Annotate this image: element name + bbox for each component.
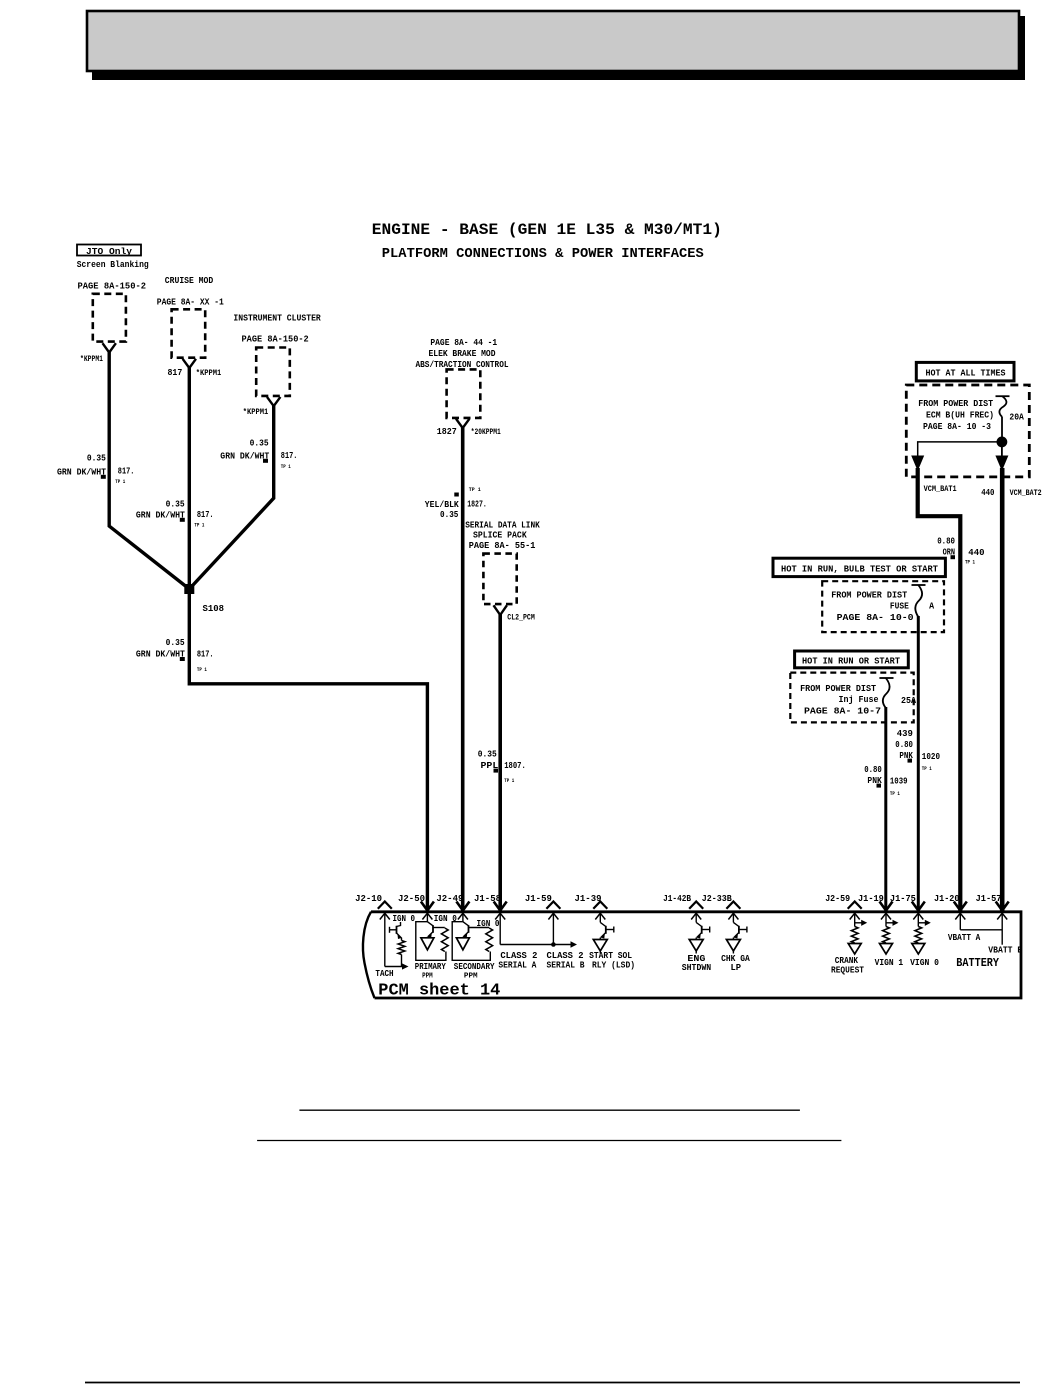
svg-text:PAGE 8A- XX -1: PAGE 8A- XX -1 [157, 297, 224, 308]
wire splice pack to PCM J1-58 [498, 614, 502, 912]
power dist FUSE A box [822, 581, 944, 632]
net PRIMARY label [415, 961, 446, 981]
svg-text:TP 1: TP 1 [965, 559, 976, 566]
svg-text:TP 1: TP 1 [890, 790, 901, 797]
svg-text:440: 440 [981, 487, 995, 498]
svg-text:VBATT A: VBATT A [948, 932, 981, 943]
power dist Inj Fuse text [800, 683, 916, 717]
resistor crank request input [848, 920, 867, 954]
svg-text:CRUISE MOD: CRUISE MOD [165, 275, 214, 286]
svg-text:0.80: 0.80 [895, 739, 913, 750]
wire junction down [1001, 446, 1003, 456]
connector J1-75 [890, 893, 925, 927]
svg-text:Screen Blanking: Screen Blanking [77, 260, 149, 270]
svg-text:GRN DK/WHT: GRN DK/WHT [136, 510, 185, 521]
svg-text:PPM: PPM [422, 973, 433, 981]
svg-text:VCM_BAT2: VCM_BAT2 [1010, 489, 1042, 498]
connector J2-49 [436, 893, 469, 922]
svg-text:VIGN 1: VIGN 1 [875, 957, 904, 968]
svg-text:0.35: 0.35 [440, 509, 459, 520]
svg-text:A: A [929, 601, 934, 612]
svg-text:Inj Fuse: Inj Fuse [839, 694, 879, 705]
svg-text:SERIAL A: SERIAL A [498, 960, 536, 971]
svg-text:0.35: 0.35 [166, 498, 185, 509]
wire cruise mod to S108 to PCM J2-50 [189, 367, 427, 912]
net CRANK REQUEST [831, 955, 864, 976]
PCM module box [371, 912, 1021, 998]
net CLASS 2 SERIAL A [498, 950, 537, 971]
svg-text:IGN 0: IGN 0 [393, 913, 416, 924]
transistor check gauges driver [726, 922, 747, 953]
svg-text:TP 1: TP 1 [504, 777, 515, 784]
arrowhead VCM_BAT1 [911, 456, 924, 472]
secondary driver block [452, 922, 490, 961]
instrument cluster module box [256, 348, 290, 396]
fuse Inj symbol [879, 678, 893, 708]
svg-text:GRN DK/WHT: GRN DK/WHT [57, 467, 106, 478]
connector J2-33B [702, 893, 741, 922]
svg-text:PPM: PPM [464, 973, 478, 981]
connector Y ABS [456, 419, 469, 428]
connector J1-57 [976, 893, 1009, 945]
svg-text:817: 817 [168, 367, 183, 378]
svg-text:PAGE 8A- 10 -3: PAGE 8A- 10 -3 [923, 421, 991, 432]
connector Y screen blanking [103, 343, 116, 352]
svg-text:J1-58: J1-58 [474, 893, 501, 904]
svg-text:1807.: 1807. [504, 760, 526, 771]
svg-text:SHTDWN: SHTDWN [682, 962, 712, 973]
wire label 0.35 PPL 1807 [478, 749, 526, 784]
svg-text:VBATT B: VBATT B [988, 945, 1022, 956]
svg-text:GRN DK/WHT: GRN DK/WHT [136, 649, 185, 660]
svg-text:JTO Only: JTO Only [86, 247, 133, 257]
junction dot VCM_BAT [997, 437, 1008, 448]
svg-text:HOT IN RUN OR START: HOT IN RUN OR START [802, 656, 900, 667]
power dist ECM text [918, 398, 994, 432]
svg-text:0.80: 0.80 [864, 764, 882, 775]
svg-text:TP 1: TP 1 [281, 463, 292, 470]
svg-text:FROM POWER DIST: FROM POWER DIST [918, 398, 993, 409]
svg-text:FUSE: FUSE [890, 601, 909, 612]
HOT IN RUN OR START label box [795, 651, 909, 668]
svg-text:*20KPPM1: *20KPPM1 [471, 427, 501, 437]
svg-text:ELEK BRAKE MOD: ELEK BRAKE MOD [429, 348, 496, 359]
svg-text:TP 1: TP 1 [115, 478, 126, 485]
HOT IN RUN BULB TEST OR START label box [773, 558, 945, 576]
connector J2-10 [355, 893, 392, 967]
wire label 0.35 GRN DK/WHT 817 (below S108) [136, 637, 214, 673]
wire instrument cluster to S108 [189, 405, 273, 589]
svg-text:VIGN 0: VIGN 0 [910, 957, 939, 968]
svg-text:0.35: 0.35 [87, 453, 106, 464]
junction class 2 [551, 942, 556, 947]
svg-text:*KPPM1: *KPPM1 [80, 354, 103, 364]
page footer rule [85, 1382, 1020, 1384]
svg-text:TP 1: TP 1 [197, 666, 208, 673]
transistor tach driver [390, 922, 402, 941]
svg-text:1827: 1827 [437, 426, 457, 437]
wire tach output [385, 955, 402, 967]
fuse 20A [996, 396, 1025, 422]
net START SOL RLY [589, 950, 635, 971]
wire label 0.80 PNK 1039 [864, 764, 908, 797]
svg-text:HOT IN RUN, BULB TEST OR START: HOT IN RUN, BULB TEST OR START [781, 564, 938, 575]
cruise mod module box [172, 309, 206, 357]
svg-text:SECONDARY: SECONDARY [454, 961, 495, 972]
wire FUSE A to PCM J1-75 [917, 616, 920, 912]
svg-text:J1-39: J1-39 [575, 893, 602, 904]
svg-text:GRN DK/WHT: GRN DK/WHT [220, 451, 269, 462]
net IGN 0 (tach) [393, 913, 416, 924]
svg-text:VCM_BAT1: VCM_BAT1 [924, 485, 957, 494]
wire label 0.35 GRN DK/WHT 817 (middle) [136, 498, 214, 528]
svg-text:TP 1: TP 1 [469, 486, 482, 493]
svg-text:PAGE 8A- 55-1: PAGE 8A- 55-1 [469, 540, 536, 551]
svg-text:817.: 817. [118, 466, 135, 477]
connector J1-42B [663, 893, 703, 922]
svg-text:0.35: 0.35 [250, 437, 269, 448]
wire junction to left arrow [918, 442, 1002, 456]
svg-text:PRIMARY: PRIMARY [415, 961, 446, 972]
svg-text:S108: S108 [203, 603, 225, 614]
power dist ECM box [906, 385, 1029, 477]
screen blanking module box [93, 294, 126, 342]
connector Y splice pack [494, 605, 507, 615]
svg-text:0.80: 0.80 [937, 536, 955, 547]
net ENG SHTDWN [682, 953, 712, 973]
svg-text:PAGE 8A-150-2: PAGE 8A-150-2 [242, 334, 310, 345]
wire screen blanking to S108 [109, 352, 189, 590]
connector J2-59 [825, 893, 862, 927]
svg-text:J2-49: J2-49 [436, 893, 463, 904]
svg-text:PAGE 8A- 44 -1: PAGE 8A- 44 -1 [430, 337, 497, 348]
wire class 2 serial [500, 944, 570, 946]
connector J1-39 [575, 893, 608, 922]
resistor vign0 input [912, 920, 931, 954]
net CHK GA LP [721, 953, 750, 973]
wire label 0.35 GRN DK/WHT 817 (left) [57, 453, 134, 486]
connector Y cruise mod [183, 359, 196, 368]
resistor secondary [486, 928, 493, 952]
wire ABS to PCM J2-49 [461, 427, 465, 912]
svg-text:PLATFORM CONNECTIONS & POWER I: PLATFORM CONNECTIONS & POWER INTERFACES [382, 247, 704, 262]
net SECONDARY label [454, 961, 495, 981]
svg-text:J2-59: J2-59 [825, 893, 850, 904]
svg-text:20A: 20A [1009, 412, 1024, 423]
transistor eng shutdown driver [689, 922, 710, 953]
svg-text:439: 439 [897, 728, 914, 739]
svg-text:HOT AT ALL TIMES: HOT AT ALL TIMES [926, 368, 1006, 379]
underline rule 2 [257, 1140, 841, 1142]
wire label 0.35 GRN DK/WHT 817 (right) [220, 437, 297, 470]
svg-text:BATTERY: BATTERY [956, 956, 999, 970]
svg-text:RLY (LSD): RLY (LSD) [592, 960, 635, 971]
svg-text:817.: 817. [197, 509, 214, 520]
svg-text:REQUEST: REQUEST [831, 965, 864, 976]
svg-text:1039: 1039 [890, 776, 908, 787]
PCM torn left edge [363, 912, 375, 998]
svg-text:0.35: 0.35 [478, 749, 497, 760]
connector J1-20 [934, 893, 967, 930]
svg-text:TACH: TACH [375, 968, 393, 979]
svg-text:J1-59: J1-59 [525, 893, 552, 904]
power dist Inj Fuse box [790, 673, 913, 723]
svg-text:25A: 25A [901, 695, 916, 706]
wire VCM_BAT1 to PCM J1-20 [918, 468, 961, 912]
svg-text:PAGE 8A-150-2: PAGE 8A-150-2 [78, 281, 147, 292]
svg-text:CL2_PCM: CL2_PCM [507, 614, 535, 623]
wire Inj Fuse to PCM J1-19 [884, 707, 887, 912]
svg-text:FROM POWER DIST: FROM POWER DIST [831, 590, 907, 601]
svg-text:J2-10: J2-10 [355, 893, 382, 904]
svg-text:J2-33B: J2-33B [702, 893, 732, 904]
splice S108 [184, 584, 194, 594]
svg-text:ENGINE - BASE (GEN 1E L35 & M3: ENGINE - BASE (GEN 1E L35 & M30/MT1) [372, 221, 722, 239]
wire label YEL/BLK 0.35 1827 [425, 486, 487, 520]
svg-text:SERIAL B: SERIAL B [547, 960, 585, 971]
underline rule 1 [299, 1109, 800, 1111]
JTO Only label box [77, 245, 141, 258]
svg-text:*KPPM1: *KPPM1 [196, 368, 222, 378]
svg-text:1020: 1020 [922, 751, 940, 762]
svg-text:1827.: 1827. [467, 499, 487, 510]
svg-text:*KPPM1: *KPPM1 [243, 407, 269, 417]
wire VCM_BAT2 to PCM J1-57 [1000, 468, 1005, 912]
power dist FUSE A text [831, 590, 934, 624]
wire vbatt link [960, 929, 1002, 931]
svg-text:TP 1: TP 1 [922, 765, 933, 772]
resistor primary [441, 928, 448, 952]
splice pack module box [483, 554, 516, 605]
HOT AT ALL TIMES label box [916, 362, 1014, 381]
ABS module box [447, 369, 481, 418]
connector J1-19 [858, 893, 893, 927]
wire fuse to junction [1001, 417, 1003, 442]
svg-text:817.: 817. [281, 450, 298, 461]
wire label 0.80 ORN 440 [937, 536, 985, 566]
svg-text:PCM sheet 14: PCM sheet 14 [378, 982, 500, 1001]
svg-text:INSTRUMENT CLUSTER: INSTRUMENT CLUSTER [233, 313, 321, 324]
svg-text:TP 1: TP 1 [194, 522, 205, 529]
svg-text:817.: 817. [197, 649, 214, 660]
svg-text:PAGE 8A- 10-7: PAGE 8A- 10-7 [804, 706, 881, 717]
resistor tach [398, 941, 405, 955]
net CLASS 2 SERIAL B [547, 950, 585, 971]
connector J2-50 [398, 893, 434, 922]
svg-text:440: 440 [968, 547, 985, 558]
transistor start sol driver [593, 922, 614, 953]
svg-text:PAGE 8A- 10-0: PAGE 8A- 10-0 [837, 612, 914, 623]
svg-text:ECM B(UH FREC): ECM B(UH FREC) [926, 410, 994, 421]
svg-text:J1-42B: J1-42B [663, 893, 691, 904]
svg-text:FROM POWER DIST: FROM POWER DIST [800, 683, 876, 694]
connector J1-59 [525, 893, 561, 945]
header bar shadow [92, 16, 1025, 80]
svg-text:LP: LP [731, 962, 742, 973]
svg-text:0.35: 0.35 [166, 637, 185, 648]
connector Y instrument cluster [267, 397, 280, 406]
primary driver block [416, 922, 446, 961]
header bar [87, 11, 1019, 71]
svg-text:SPLICE PACK: SPLICE PACK [473, 530, 527, 541]
resistor vign1 input [880, 920, 899, 954]
fuse A symbol [912, 585, 926, 617]
wire label 439 0.80 PNK 1020 [895, 728, 940, 772]
arrowhead VCM_BAT2 [995, 456, 1008, 472]
connector J1-58 [474, 893, 507, 945]
